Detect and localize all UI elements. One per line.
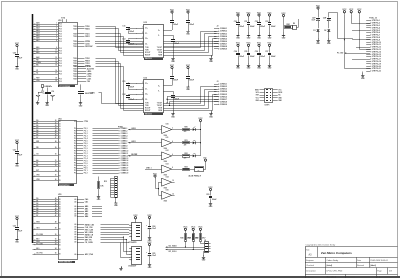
wire bus to U14 pin: [33, 169, 59, 172]
svg-text:GTR PGL-3: GTR PGL-3: [372, 25, 380, 27]
svg-text:D0: D0: [59, 240, 61, 242]
ground: [327, 38, 331, 45]
svg-text:C30: C30: [234, 21, 237, 23]
wire U15 AB row: [77, 212, 102, 215]
wire cap pin: [136, 88, 148, 91]
wire input BUZER: [128, 154, 159, 157]
svg-text:12: 12: [55, 57, 57, 59]
wire: [329, 13, 371, 40]
svg-text:D0: D0: [59, 171, 61, 173]
wire input LED1: [128, 141, 159, 144]
svg-text:PG_DN0: PG_DN0: [36, 234, 43, 236]
svg-text:22: 22: [55, 125, 57, 127]
wire bus to U15 pin: [33, 244, 59, 246]
svg-text:CS0: CS0: [87, 81, 90, 83]
svg-text:CONN0-6: CONN0-6: [121, 140, 128, 142]
buffer G12 7406: [159, 150, 175, 163]
wire: [115, 197, 117, 201]
svg-text:C29: C29: [206, 194, 209, 196]
svg-text:CONN0-8: CONN0-8: [220, 46, 227, 48]
svg-text:PG_DN1: PG_DN1: [36, 244, 43, 246]
wire U10 RXD0: [78, 29, 144, 51]
svg-text:TXD0: TXD0: [73, 63, 77, 65]
power flag VCC: [147, 215, 152, 220]
svg-text:GTR PGL-8: GTR PGL-8: [372, 37, 380, 39]
capacitor bank 1-1: [234, 18, 244, 33]
wire bus to U14 pin: [33, 164, 59, 167]
wire: [17, 154, 19, 161]
svg-text:CK_CATA: CK_CATA: [85, 241, 94, 244]
svg-text:G15: G15: [166, 190, 169, 192]
power flag VCC: [236, 43, 241, 48]
wire U14 port pin: [77, 128, 119, 130]
power flag VCC 2: [15, 140, 20, 145]
wire bus to U15 pin: [33, 227, 59, 230]
wire bus to U10 pin: [33, 29, 59, 32]
svg-text:D0: D0: [59, 223, 61, 225]
wire bus to U10 pin: [33, 64, 59, 67]
svg-text:C21: C21: [122, 81, 125, 83]
svg-text:C22: C22: [13, 226, 16, 228]
connector J5 I2C: [204, 240, 210, 253]
svg-text:CONN0-3: CONN0-3: [121, 133, 128, 135]
pin T/R in: [145, 108, 163, 110]
svg-text:CONN1-7: CONN1-7: [220, 99, 227, 101]
svg-text:26: 26: [55, 135, 57, 137]
connector P25 GPIO: [366, 17, 381, 72]
wire U10 LWR0: [78, 74, 92, 76]
ground: [148, 262, 152, 269]
power flag VCC: [198, 118, 203, 123]
svg-text:D1: D1: [313, 30, 315, 32]
wire: [17, 57, 19, 64]
svg-text:(label): (label): [370, 265, 376, 267]
svg-text:C34: C34: [234, 50, 237, 53]
svg-text:U12: U12: [144, 78, 147, 80]
svg-text:C33: C33: [265, 21, 268, 23]
svg-text:P0: P0: [74, 143, 76, 145]
svg-text:D0: D0: [59, 164, 61, 166]
svg-text:27: 27: [55, 137, 57, 139]
wire cap pin: [136, 82, 148, 85]
svg-text:D0: D0: [59, 242, 61, 244]
wire bus to U14 pin: [33, 127, 59, 129]
svg-text:100nF: 100nF: [250, 56, 255, 58]
svg-text:GTR PGL-1: GTR PGL-1: [372, 20, 380, 22]
wire I2C_SCL0: [166, 241, 205, 253]
wire U10 CLK0 to J2: [78, 44, 219, 46]
svg-text:J5: J5: [204, 240, 206, 242]
svg-text:CONN0-5: CONN0-5: [220, 38, 227, 40]
jumper BOOT: [78, 84, 93, 95]
ground: [15, 237, 19, 244]
wire bus to U10 pin: [33, 73, 59, 75]
svg-text:Engineer: Engineer: [306, 259, 314, 262]
buffer G10 7406: [159, 124, 175, 137]
wire bus to U15 pin: [33, 234, 59, 236]
svg-text:OE1: OE1: [36, 228, 39, 230]
svg-text:D0: D0: [59, 138, 61, 140]
wire U10 TXD2 to U12: [78, 58, 144, 103]
capacitor bank 2-4: [265, 48, 275, 63]
svg-text:TXD0: TXD0: [73, 28, 77, 30]
svg-text:C35: C35: [244, 51, 247, 53]
wire U14 port pin: [77, 165, 119, 167]
wire U10 TXD3 to U12: [78, 63, 144, 108]
svg-text:100nF: 100nF: [173, 79, 178, 81]
resistor network RN1: [284, 18, 299, 29]
svg-text:P0: P0: [74, 133, 76, 135]
wire cap pin: [136, 97, 148, 101]
svg-text:GTR PGL-20: GTR PGL-20: [372, 66, 381, 68]
wire bus to U14 pin: [33, 159, 59, 162]
svg-text:C1+: C1+: [145, 28, 148, 30]
svg-text:CK_P50: CK_P50: [36, 253, 42, 255]
svg-text:J2: J2: [217, 26, 219, 28]
ground: [171, 56, 175, 63]
svg-text:TXD0: TXD0: [73, 74, 77, 76]
copyright note: [306, 244, 337, 247]
capacitor C24: [186, 70, 194, 85]
svg-text:LPC5, CPU, PS/2: LPC5, CPU, PS/2: [327, 271, 344, 273]
svg-text:ICSP1: ICSP1: [265, 104, 270, 106]
ground: [148, 235, 152, 242]
svg-text:CONN0-2: CONN0-2: [220, 31, 227, 33]
power flag VCC: [246, 12, 251, 17]
svg-text:TXD0: TXD0: [73, 61, 77, 63]
page bottom edge: [0, 276, 400, 278]
svg-text:TXD0: TXD0: [73, 46, 77, 48]
svg-text:CONN0-7: CONN0-7: [220, 43, 227, 45]
diode D1 1N4148: [313, 29, 319, 38]
svg-text:10uF: 10uF: [18, 58, 22, 60]
svg-text:P0_0: P0_0: [84, 128, 88, 130]
ground: [257, 33, 261, 40]
svg-text:P0: P0: [74, 155, 76, 157]
svg-text:D0: D0: [59, 124, 61, 126]
svg-text:CONN0-10: CONN0-10: [121, 150, 129, 152]
wire: [123, 237, 130, 252]
capacitor C21: [13, 150, 22, 157]
wire U14 port pin: [77, 155, 119, 157]
wire U14 port pin: [77, 140, 119, 142]
svg-text:Zen Micro Computers: Zen Micro Computers: [321, 251, 352, 255]
wire DTR1 into U12: [91, 92, 144, 103]
svg-text:R23: R23: [184, 166, 187, 168]
wire U15 AB row: [77, 205, 102, 208]
svg-text:C25: C25: [152, 253, 155, 255]
wire: [352, 15, 371, 24]
svg-text:WE1: WE1: [36, 222, 40, 224]
power flag VCC: [133, 215, 138, 220]
svg-text:P0.0: P0.0: [59, 79, 62, 81]
svg-text:100nF: 100nF: [212, 199, 217, 201]
svg-text:P1_5: P1_5: [84, 160, 88, 162]
wire bus to U15 pin: [33, 212, 59, 215]
resistor R32 4K7: [195, 232, 205, 242]
svg-text:19: 19: [55, 80, 57, 82]
svg-text:P0.0: P0.0: [59, 63, 62, 65]
wire bus to U14 pin: [33, 141, 59, 143]
wire bus to U15 pin: [33, 247, 59, 250]
svg-text:C37: C37: [265, 51, 268, 53]
wire T/R out: [164, 90, 217, 106]
svg-text:P2_0: P2_0: [84, 168, 88, 170]
wire bus to U14 pin: [33, 129, 59, 132]
wire U15 NAND_CN: [77, 233, 129, 236]
svg-text:AD7: AD7: [36, 39, 39, 42]
svg-text:D0: D0: [59, 199, 61, 201]
svg-text:P0.0: P0.0: [59, 61, 62, 63]
svg-text:R12: R12: [104, 181, 107, 183]
svg-text:(label): (label): [327, 265, 333, 267]
resistor R20: [175, 127, 190, 133]
power flag VCC: [246, 43, 251, 48]
power flag VCC 1: [15, 43, 20, 48]
svg-text:U15: U15: [58, 194, 61, 196]
svg-text:55: 55: [55, 253, 57, 255]
svg-text:I2C_SDA1: I2C_SDA1: [169, 244, 177, 247]
svg-text:31: 31: [55, 160, 57, 162]
svg-text:PGB1: PGB1: [118, 126, 123, 128]
svg-text:P0.0: P0.0: [59, 48, 62, 50]
svg-text:100nF: 100nF: [174, 43, 179, 45]
capacitor C27 10uF: [311, 11, 320, 29]
wire bus to U10 pin: [33, 22, 59, 25]
svg-text:P0: P0: [74, 130, 76, 132]
svg-text:CONN0-13: CONN0-13: [121, 158, 129, 160]
wire U10 LRD0: [78, 71, 92, 73]
ground: [114, 201, 118, 207]
diode D2 1N4148: [324, 29, 330, 38]
svg-text:P0: P0: [74, 128, 76, 130]
svg-text:P1_3: P1_3: [84, 155, 88, 157]
wire bus to U10 pin: [33, 78, 59, 80]
svg-text:TXD0: TXD0: [73, 78, 77, 80]
wire bus to U10 pin: [33, 37, 59, 40]
resistor R12 10K: [98, 177, 105, 195]
wire bus to U10 pin: [33, 24, 59, 27]
bus: [32, 14, 34, 243]
wire U15 AB row: [77, 215, 102, 218]
buffer G11 7406: [159, 137, 175, 150]
wire: [135, 220, 137, 222]
wire U14 port pin: [77, 131, 119, 133]
wire U15 CLK_CS0: [77, 227, 129, 229]
wire U14 port pin: [77, 148, 119, 150]
svg-text:10uF: 10uF: [18, 155, 22, 157]
svg-text:29: 29: [55, 147, 57, 149]
wire bus to U14 pin: [33, 175, 59, 177]
capacitor C22: [13, 226, 22, 233]
wire U14 port pin: [77, 168, 119, 170]
svg-text:CONN0-17: CONN0-17: [121, 168, 129, 170]
capacitor C11: [122, 26, 136, 34]
wire bus to U14 pin: [33, 162, 59, 165]
wire bus to U10 pin: [33, 51, 59, 54]
svg-text:CONN0-1: CONN0-1: [121, 128, 128, 130]
capacitor C12: [122, 38, 136, 45]
svg-text:53: 53: [55, 244, 57, 246]
wire bus to U14 pin: [33, 123, 59, 125]
capacitor bank 2-1: [234, 48, 244, 63]
ground: [316, 38, 320, 45]
svg-text:P0: P0: [74, 153, 76, 155]
wire: [362, 72, 364, 74]
wire U14 port pin: [77, 157, 119, 160]
wire: [200, 123, 201, 156]
buffer G14 7406: [159, 175, 175, 189]
wire cap pin: [136, 37, 148, 40]
capacitor C22: [122, 94, 136, 101]
wire: [121, 243, 130, 258]
wire U15 BRT_PS: [77, 239, 126, 241]
svg-text:GTR PGL-11: GTR PGL-11: [372, 44, 381, 46]
svg-text:RST/CAP: RST/CAP: [85, 45, 93, 48]
svg-text:28: 28: [55, 141, 57, 143]
svg-text:C2+: C2+: [145, 38, 148, 40]
capacitor C29: [206, 192, 216, 201]
svg-text:RXD0: RXD0: [85, 29, 90, 31]
svg-text:12: 12: [172, 193, 174, 195]
wire bus to U10 pin: [33, 39, 59, 42]
svg-text:10uF: 10uF: [18, 231, 22, 233]
capacitor C25 10uF: [146, 247, 156, 262]
svg-text:AB4: AB4: [85, 215, 88, 218]
svg-text:30: 30: [55, 154, 57, 156]
svg-text:R22: R22: [184, 153, 187, 155]
ground: [268, 33, 272, 40]
capacitor C23: [164, 70, 179, 85]
pin T/R in: [145, 50, 162, 52]
svg-text:G12: G12: [166, 150, 169, 152]
svg-text:R20: R20: [184, 127, 187, 129]
title block: [305, 247, 398, 278]
wire bus to U14 pin: [33, 125, 59, 127]
wire T/R out: [164, 95, 217, 111]
ground: [361, 73, 365, 80]
svg-text:P0.0: P0.0: [59, 26, 62, 28]
ic U15 memory controller: [58, 194, 78, 264]
wire U14 port pin: [77, 170, 119, 172]
svg-text:Page: Page: [377, 271, 381, 273]
svg-text:25: 25: [55, 132, 57, 134]
svg-text:10uF: 10uF: [152, 228, 156, 230]
svg-text:CA1: CA1: [85, 201, 88, 204]
svg-text:TXD0: TXD0: [73, 76, 77, 78]
svg-text:T2OUT: T2OUT: [157, 50, 162, 52]
ground: [282, 27, 286, 39]
svg-text:R1OUT: R1OUT: [145, 108, 150, 110]
capacitor C15: [164, 36, 180, 57]
wire: [344, 15, 371, 69]
ground: [186, 29, 190, 35]
svg-text:P0: P0: [74, 138, 76, 140]
svg-text:A18: A18: [36, 51, 39, 54]
svg-text:RN1: RN1: [287, 24, 290, 26]
power flag VCC: [257, 43, 262, 48]
wire bus to U10 pin: [33, 49, 59, 52]
svg-text:T1OUT: T1OUT: [157, 103, 162, 105]
svg-text:100nF: 100nF: [129, 43, 134, 45]
svg-text:220nF: 220nF: [260, 26, 265, 28]
svg-text:100nF: 100nF: [173, 24, 178, 26]
svg-text:P0.0: P0.0: [59, 53, 62, 55]
svg-text:D0: D0: [59, 235, 61, 237]
svg-text:C20: C20: [13, 53, 16, 55]
svg-text:J3: J3: [217, 81, 219, 83]
svg-text:D0: D0: [59, 176, 61, 178]
svg-text:GTR PGL-13: GTR PGL-13: [372, 49, 381, 51]
svg-text:100nF: 100nF: [271, 56, 276, 58]
svg-text:P0.0: P0.0: [59, 58, 62, 60]
svg-text:15: 15: [55, 65, 57, 67]
svg-text:P0.0: P0.0: [59, 36, 62, 38]
svg-text:P0: P0: [74, 148, 76, 150]
wire bus to U10 pin: [33, 34, 59, 37]
svg-text:P0: P0: [74, 158, 76, 160]
svg-text:P0: P0: [74, 121, 76, 123]
svg-text:18: 18: [55, 78, 57, 80]
svg-text:TXD0: TXD0: [73, 71, 77, 73]
svg-text:CONN0-6: CONN0-6: [220, 41, 227, 43]
capacitor bank 1-2: [244, 18, 254, 33]
svg-text:C28: C28: [323, 18, 326, 20]
svg-text:100nF: 100nF: [250, 26, 255, 28]
svg-text:R1OUT: R1OUT: [145, 52, 150, 54]
wire U14 port pin: [77, 160, 119, 162]
svg-text:DSMOS8TRLN: DSMOS8TRLN: [59, 185, 69, 187]
power flag VCC 3: [15, 216, 20, 221]
svg-text:INT: INT: [36, 170, 39, 172]
ground: [236, 63, 240, 70]
svg-text:PGBL_25: PGBL_25: [369, 17, 377, 19]
svg-text:P0_3: P0_3: [84, 135, 88, 137]
ground: [268, 63, 272, 70]
wire cap pin: [136, 93, 148, 96]
svg-text:35: 35: [55, 175, 57, 177]
wire bus to U14 pin: [33, 137, 59, 139]
svg-text:DTR1: DTR1: [91, 92, 95, 94]
ground: [186, 85, 190, 91]
svg-text:GTR PGL-17: GTR PGL-17: [372, 59, 381, 61]
svg-text:D0: D0: [59, 128, 61, 130]
wire U15 RAS_WE: [77, 236, 123, 239]
svg-text:P0.0: P0.0: [59, 74, 62, 76]
svg-text:CONN0-15: CONN0-15: [121, 163, 129, 165]
svg-text:CONN0-12: CONN0-12: [121, 155, 129, 157]
svg-text:100nF: 100nF: [189, 79, 194, 81]
svg-text:WSMOS8SETRLN: WSMOS8SETRLN: [59, 262, 72, 264]
svg-text:C24: C24: [152, 225, 155, 228]
wire U14 CTX0: [77, 121, 89, 123]
power flag VCC: [349, 9, 354, 14]
wire T/R out: [164, 87, 217, 104]
svg-text:C11: C11: [122, 26, 125, 28]
svg-text:TXD0: TXD0: [73, 33, 77, 35]
svg-text:V+: V+: [158, 30, 160, 32]
power flag VCC: [257, 12, 262, 17]
wire I2C_SDA1: [166, 241, 205, 248]
svg-text:33: 33: [55, 165, 57, 167]
ground: [97, 194, 101, 201]
wire: [17, 145, 19, 151]
svg-text:TXD0: TXD0: [73, 43, 77, 45]
svg-text:U13: U13: [144, 22, 147, 24]
svg-text:CONN0-5: CONN0-5: [121, 138, 128, 140]
svg-text:LED1: LED1: [131, 141, 135, 143]
wire bus to U15 pin: [33, 239, 59, 241]
